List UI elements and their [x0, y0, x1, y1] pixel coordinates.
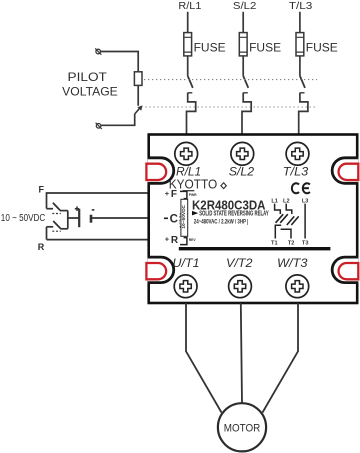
pushbutton R reverse: [47, 221, 68, 231]
contact K1a blade phase 1: [188, 76, 193, 88]
svg-text:+: +: [165, 234, 170, 243]
svg-text:S/L2: S/L2: [229, 164, 254, 178]
terminal screw W/T3: [286, 275, 309, 298]
wire V/T2 to motor: [241, 303, 242, 403]
internal node L1: [271, 198, 278, 204]
terminal screw V/T2: [229, 275, 252, 298]
svg-text:T/L3: T/L3: [283, 164, 309, 178]
pilot relay coil: [134, 72, 142, 86]
interlock contact phase 3: [299, 93, 308, 136]
label 10-50VDC supply: [1, 213, 46, 224]
rating 24-480VAC 2.2kW 3HP: [194, 219, 249, 226]
svg-text:MOTOR: MOTOR: [224, 423, 261, 435]
node F label: [39, 184, 45, 194]
control terminal +R: [165, 234, 197, 246]
svg-text:F: F: [39, 184, 45, 194]
wire U/T1 to motor: [186, 303, 222, 413]
terminal label U/T1: [173, 256, 200, 270]
svg-text:L2: L2: [283, 198, 290, 204]
svg-text:FUSE: FUSE: [249, 40, 281, 54]
svg-text:T2: T2: [288, 241, 295, 247]
svg-text:V/T2: V/T2: [226, 256, 253, 270]
battery BT1: [75, 206, 95, 227]
svg-text:T: T: [179, 225, 181, 229]
svg-text:REV: REV: [189, 238, 197, 242]
svg-text:FUSE: FUSE: [306, 40, 338, 54]
svg-text:F: F: [171, 189, 177, 200]
terminal label R/L1: [176, 164, 201, 178]
wire coil to pilot switch: [137, 85, 139, 105]
pilot terminal bottom: [96, 123, 102, 129]
fuse F1: [184, 33, 226, 56]
wire phase R/L1 to fuse: [187, 12, 189, 33]
svg-text:T3: T3: [302, 241, 309, 247]
terminal screw U/T1: [174, 275, 197, 298]
internal wire L3 to T3: [304, 204, 306, 239]
terminal label T/L3: [283, 164, 309, 178]
mounting tab bottom left: [146, 257, 173, 283]
svg-text:VOLTAGE: VOLTAGE: [62, 85, 118, 99]
svg-text:T1: T1: [271, 241, 278, 247]
svg-text:L1: L1: [271, 198, 278, 204]
control terminal -C: [164, 214, 178, 226]
wire pushbutton bus: [68, 211, 79, 229]
mechanical linkage dotted line upper: [144, 79, 317, 81]
svg-text:FUSE: FUSE: [194, 40, 226, 54]
wire pilot terminal to coil: [100, 52, 138, 72]
pilot switch blade: [135, 105, 143, 114]
wire phase T/L3 to fuse: [299, 12, 301, 33]
svg-text:PWR: PWR: [189, 193, 197, 197]
separator bar: [179, 247, 331, 250]
terminal label S/L2: [229, 164, 254, 178]
internal node T3: [302, 241, 309, 247]
mounting tab bottom right: [332, 257, 358, 283]
node R label: [38, 242, 45, 252]
wire pilot switch to bottom terminal: [101, 114, 135, 126]
internal reversing contacts: [275, 204, 299, 239]
svg-text:R: R: [38, 242, 45, 252]
internal node T2: [288, 241, 295, 247]
internal node L2: [283, 198, 290, 204]
svg-text:U/T1: U/T1: [173, 256, 200, 270]
contact K1c blade phase 3: [300, 76, 305, 88]
wire fuse F2 to contact: [242, 56, 244, 76]
mounting tab top right: [332, 158, 358, 184]
part number K2R480C3DA: [192, 198, 266, 212]
mounting tab top left: [146, 158, 173, 184]
terminal screw S/L2: [231, 142, 254, 165]
terminal label V/T2: [226, 256, 253, 270]
input rating box 10-50VDC: [179, 199, 188, 236]
wire W/T3 to motor: [263, 303, 299, 413]
node T/L3 supply label: [289, 1, 313, 12]
wire R line: [47, 239, 149, 241]
interlock contact phase 2: [242, 93, 251, 136]
wire F line to relay: [47, 193, 149, 240]
svg-text:W/T3: W/T3: [277, 256, 308, 270]
wire battery to relay C terminal: [91, 217, 148, 219]
svg-text:SOLID STATE REVERSING RELAY: SOLID STATE REVERSING RELAY: [199, 209, 269, 218]
node R/L1 supply label: [178, 1, 201, 12]
svg-text:C: C: [170, 214, 178, 226]
terminal label W/T3: [277, 256, 308, 270]
fuse F2: [239, 33, 281, 56]
wire fuse F1 to contact: [187, 56, 189, 76]
relay box outline: [149, 135, 358, 304]
CE mark: [292, 183, 310, 193]
svg-text:10 ~ 50VDC: 10 ~ 50VDC: [1, 213, 46, 224]
motor M1: [218, 403, 266, 451]
subtitle SOLID STATE REVERSING RELAY: [192, 209, 269, 218]
pushbutton F forward: [47, 203, 68, 214]
pilot voltage label: [62, 70, 118, 99]
svg-text:10~50VDC: 10~50VDC: [181, 204, 187, 228]
control terminal +F: [165, 189, 197, 200]
mechanical linkage dotted line lower: [146, 106, 318, 108]
pilot terminal top: [95, 48, 101, 54]
svg-text:R/L1: R/L1: [178, 1, 201, 12]
node S/L2 supply label: [233, 1, 257, 12]
fuse F3: [296, 33, 338, 56]
svg-text:T/L3: T/L3: [289, 1, 313, 12]
svg-text:PILOT: PILOT: [68, 70, 108, 84]
svg-text:+: +: [165, 189, 170, 198]
brand KYOTTO: [169, 177, 227, 192]
terminal screw R/L1: [175, 142, 198, 165]
contact K1b blade phase 2: [243, 76, 248, 88]
internal node L3: [302, 198, 309, 204]
wire phase S/L2 to fuse: [242, 12, 244, 33]
svg-text:S/L2: S/L2: [233, 1, 257, 12]
terminal screw T/L3: [286, 142, 309, 165]
interlock contact phase 1: [187, 93, 196, 136]
svg-text:R: R: [171, 235, 179, 246]
svg-text:L3: L3: [302, 198, 309, 204]
internal node T1: [271, 241, 278, 247]
wire fuse F3 to contact: [299, 56, 301, 76]
svg-text:24~480VAC / 2.2kW / 3HP |: 24~480VAC / 2.2kW / 3HP |: [194, 219, 249, 226]
